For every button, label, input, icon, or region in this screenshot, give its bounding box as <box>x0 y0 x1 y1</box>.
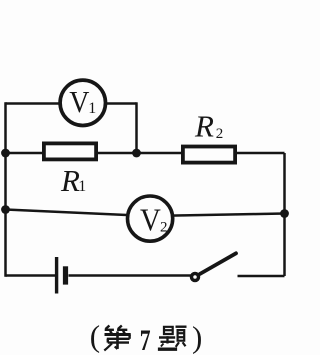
svg-text:1: 1 <box>78 178 86 195</box>
wire bottom left segment <box>6 274 56 277</box>
label R2 <box>194 109 223 144</box>
wire left vertical <box>4 102 7 276</box>
svg-text:(: ( <box>90 319 100 354</box>
caption char 第 <box>104 326 130 351</box>
svg-text:): ) <box>192 320 202 355</box>
wire main horizontal R1 R2 line <box>6 152 285 155</box>
switch lever <box>200 253 236 274</box>
wire bottom right segment <box>238 275 285 278</box>
voltmeter V1 <box>60 80 105 125</box>
battery: short thick plate (negative) <box>63 266 68 284</box>
node junction dot at V1 drop / R1 line <box>132 149 141 158</box>
battery: long plate (positive) <box>55 257 58 294</box>
switch pivot <box>192 274 199 281</box>
node junction dot right on V2 line <box>280 209 289 218</box>
caption (第 7 题) <box>90 319 203 355</box>
svg-text:R: R <box>60 163 80 198</box>
svg-text:7: 7 <box>140 324 151 355</box>
node junction dot left on R1 line <box>1 149 10 158</box>
resistor R2 <box>183 147 235 163</box>
svg-text:R: R <box>194 109 214 144</box>
resistor R1 <box>44 143 96 159</box>
svg-text:V: V <box>69 86 89 120</box>
wire V2 line <box>6 210 285 217</box>
node junction dot left on V2 line <box>1 205 10 214</box>
svg-text:1: 1 <box>88 100 96 117</box>
svg-text:V: V <box>140 202 161 238</box>
wire battery to switch segment <box>69 274 192 277</box>
voltmeter V2 <box>128 196 173 241</box>
wire right vertical <box>283 153 286 276</box>
wire top loop: left corner to V1 to right corner <box>6 102 137 105</box>
svg-text:2: 2 <box>216 126 224 142</box>
caption char 题 <box>158 327 187 350</box>
svg-text:2: 2 <box>160 219 168 235</box>
label R1 <box>60 163 86 198</box>
wire V1 right drop <box>135 102 138 153</box>
